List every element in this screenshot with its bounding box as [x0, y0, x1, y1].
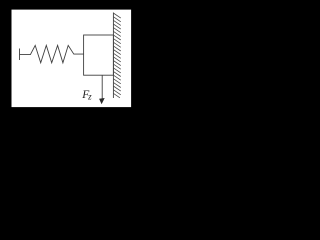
svg-text:z: z: [87, 92, 92, 102]
